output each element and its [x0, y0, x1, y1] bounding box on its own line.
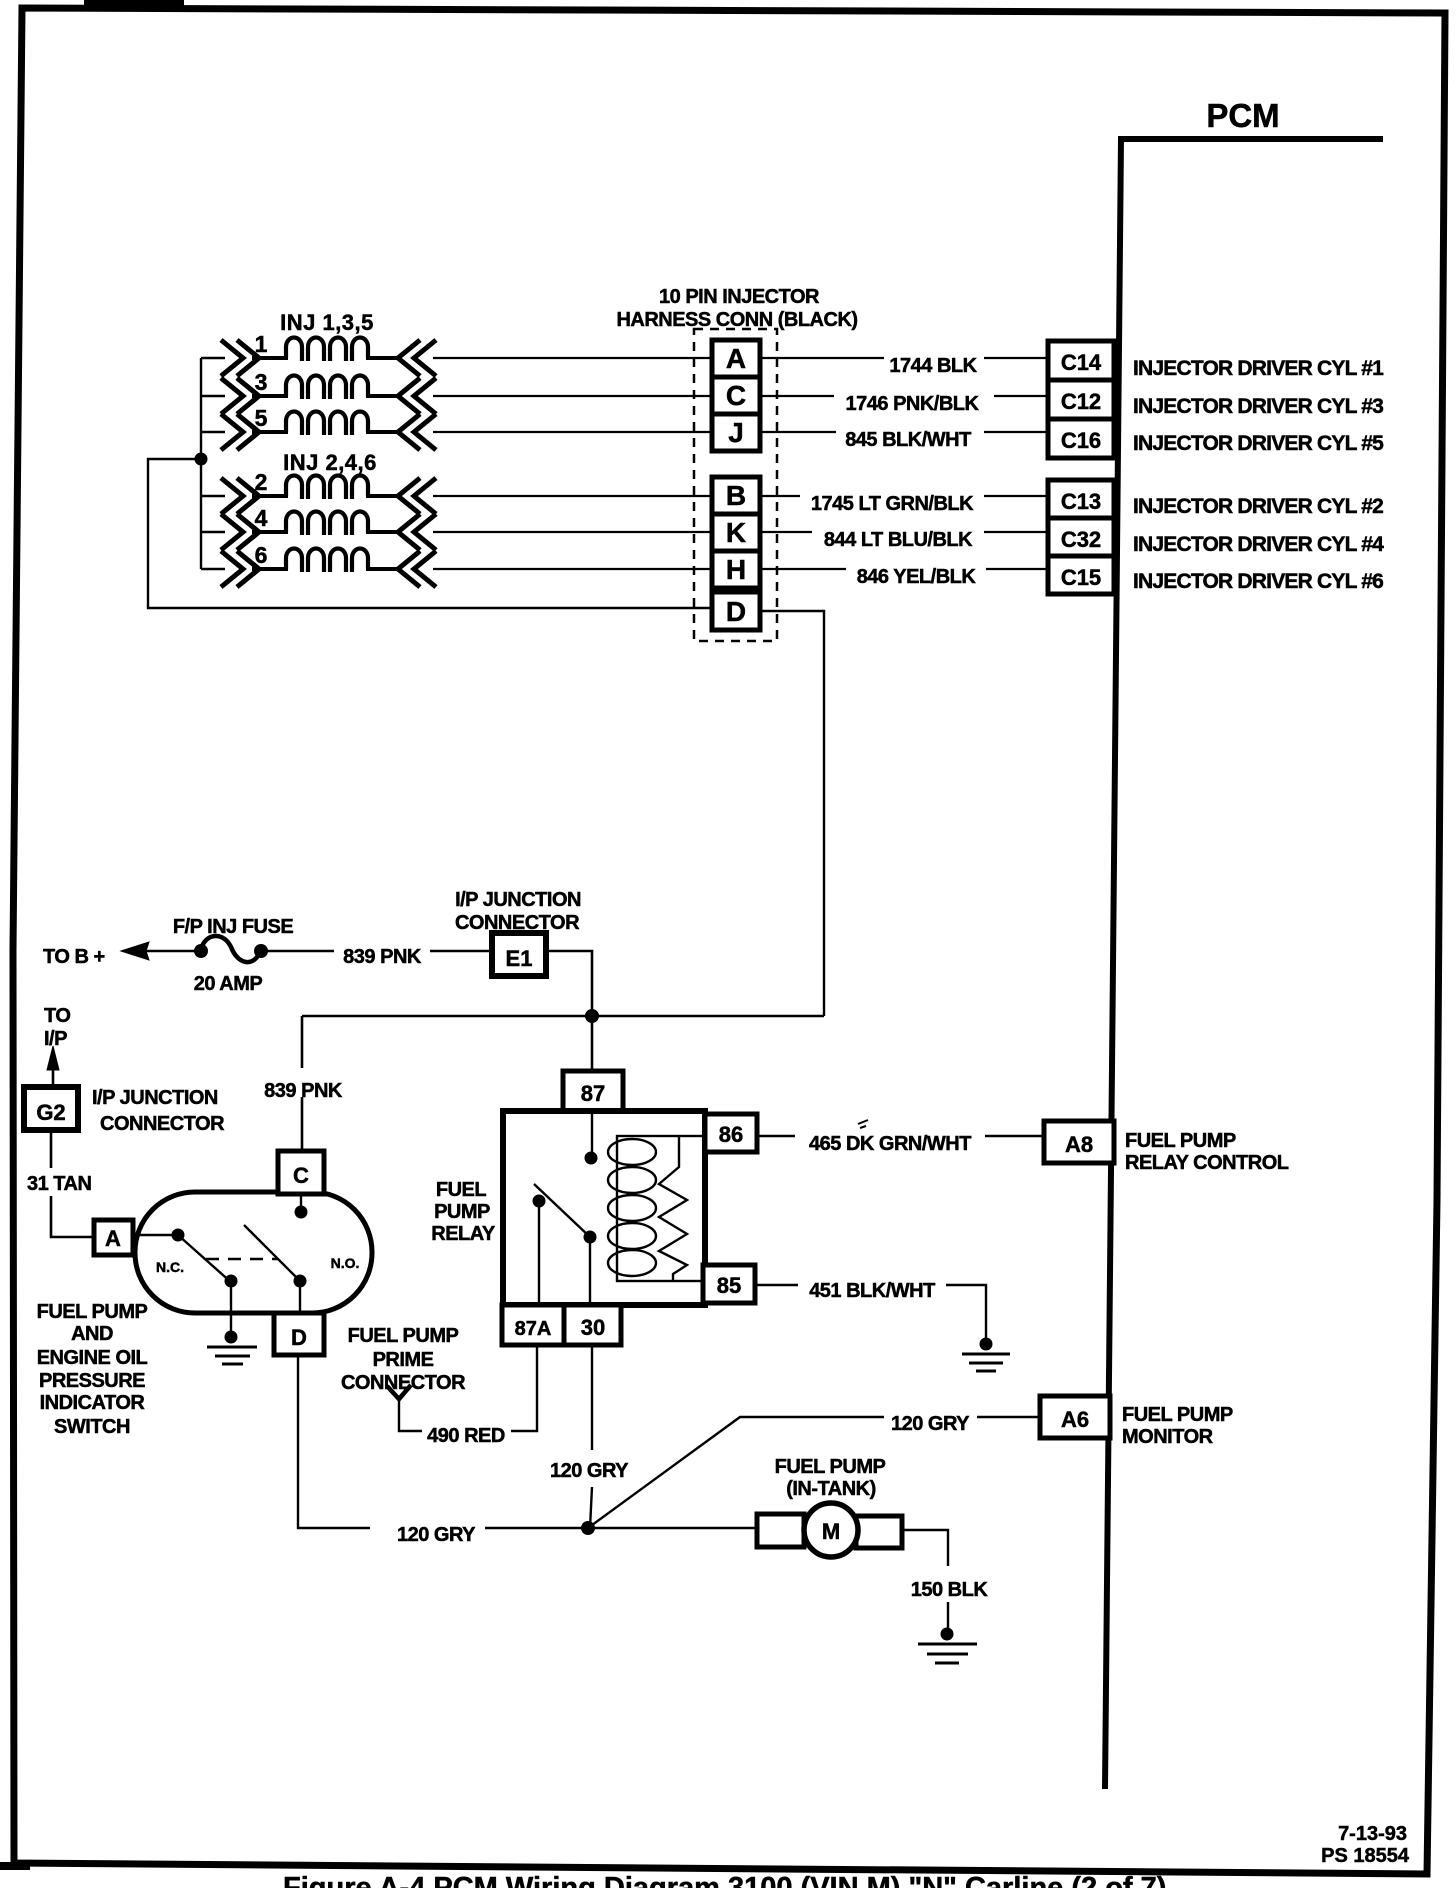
label INJECTOR DRIVER CYL #5 [1133, 432, 1384, 455]
svg-text:A: A [105, 1226, 121, 1251]
switch pin D [274, 1313, 324, 1355]
svg-text:7-13-93: 7-13-93 [1338, 1823, 1407, 1845]
svg-text:839 PNK: 839 PNK [264, 1080, 343, 1102]
svg-text:C13: C13 [1061, 489, 1101, 514]
svg-text:D: D [726, 596, 746, 627]
svg-text:120 GRY: 120 GRY [891, 1413, 970, 1435]
fuel pump relay box [503, 1111, 705, 1305]
injector 4 [201, 505, 714, 550]
svg-text:PUMP: PUMP [434, 1201, 490, 1223]
relay internal: 87A contact and wire [533, 1195, 546, 1306]
label I/P JUNCTION CONNECTOR (G2) [92, 1087, 225, 1135]
relay pin 86 [705, 1114, 757, 1152]
PCM pin A8 [1044, 1121, 1114, 1163]
label TO B + [43, 946, 105, 968]
svg-text:A8: A8 [1065, 1132, 1093, 1157]
svg-text:1746 PNK/BLK: 1746 PNK/BLK [846, 393, 980, 415]
ground (fuel pump) [918, 1628, 977, 1664]
svg-text:I/P JUNCTION: I/P JUNCTION [455, 889, 581, 911]
label 20 AMP [194, 973, 263, 995]
svg-text:87A: 87A [515, 1318, 552, 1340]
wire label 839 PNK (vertical branch) [264, 1080, 343, 1102]
injector 5 [201, 405, 714, 450]
wire junction down to 87 [591, 1016, 594, 1071]
wire label 465 DK GRN/WHT [795, 1130, 985, 1155]
relay pin 30 [564, 1305, 621, 1345]
PCM pin C12 [1048, 380, 1114, 419]
pin J [712, 414, 760, 451]
wire label 31 TAN [27, 1173, 91, 1195]
injector 3 [201, 369, 714, 414]
svg-text:F/P INJ FUSE: F/P INJ FUSE [173, 916, 293, 938]
PCM pin C14 [1048, 341, 1114, 380]
svg-text:N.C.: N.C. [156, 1259, 184, 1275]
svg-text:87: 87 [581, 1081, 605, 1106]
fuel pump / oil pressure switch oval [135, 1192, 372, 1313]
wire label 1745 LT GRN/BLK [800, 490, 984, 515]
wire pin J to C16 [760, 431, 1048, 433]
pin H [712, 551, 760, 588]
svg-text:Figure A-4 PCM Wiring Diagram: Figure A-4 PCM Wiring Diagram 3100 (VIN … [283, 1872, 1166, 1888]
label FUEL PUMP AND ENGINE OIL PRESSURE INDICATOR SWITCH [37, 1301, 148, 1438]
svg-text:1744 BLK: 1744 BLK [889, 355, 977, 377]
svg-text:PRIME: PRIME [373, 1349, 434, 1371]
wire E1 to junction [546, 951, 592, 1016]
svg-text:TO B +: TO B + [43, 946, 105, 968]
svg-text:RELAY CONTROL: RELAY CONTROL [1125, 1152, 1289, 1174]
svg-text:FUEL PUMP: FUEL PUMP [1125, 1130, 1236, 1152]
wire pin C to C12 [760, 395, 1048, 397]
svg-text:C16: C16 [1061, 428, 1101, 453]
wire label 150 BLK [911, 1579, 989, 1601]
svg-text:FUEL: FUEL [436, 1179, 487, 1201]
wire label 120 GRY (30 branch) [550, 1460, 629, 1482]
PCM pin C32 [1048, 518, 1114, 556]
wire label 845 BLK/WHT [836, 426, 984, 451]
svg-text:FUEL PUMP: FUEL PUMP [775, 1456, 886, 1478]
svg-text:20 AMP: 20 AMP [194, 973, 263, 995]
svg-text:C12: C12 [1061, 389, 1101, 414]
wire motor to ground [903, 1530, 948, 1633]
wire junction horizontal [302, 1015, 824, 1018]
fuel pump prime connector symbol [387, 1385, 422, 1431]
fuel pump motor M [757, 1503, 902, 1557]
svg-text:1745 LT GRN/BLK: 1745 LT GRN/BLK [811, 493, 974, 515]
label INJ 1,3,5 [280, 310, 374, 335]
svg-text:C: C [726, 380, 746, 411]
svg-text:C32: C32 [1061, 527, 1101, 552]
wire 85 to ground [755, 1285, 986, 1341]
arrow to B+ [121, 942, 201, 960]
svg-text:120 GRY: 120 GRY [397, 1524, 476, 1546]
PCM pin A6 [1040, 1396, 1110, 1438]
label FUEL PUMP PRIME CONNECTOR [341, 1325, 466, 1394]
relay coil [608, 1136, 705, 1281]
wire label 1746 PNK/BLK [834, 390, 994, 415]
label FUEL PUMP (IN-TANK) [775, 1456, 886, 1500]
svg-text:B: B [726, 480, 746, 511]
date code 7-13-93 / PS 18554 [1321, 1823, 1410, 1867]
wire label 120 GRY (A6) [891, 1413, 970, 1435]
artifact mark above DK [858, 1120, 868, 1128]
PCM pin C16 [1048, 419, 1114, 458]
svg-text:RELAY: RELAY [431, 1223, 496, 1245]
svg-text:2: 2 [255, 469, 268, 495]
svg-text:4: 4 [255, 505, 268, 531]
label I/P JUNCTION CONNECTOR (E1) [455, 889, 581, 934]
switch pin A [94, 1220, 133, 1255]
svg-text:SWITCH: SWITCH [54, 1416, 130, 1438]
relay internal: 87 contact [585, 1111, 598, 1165]
svg-text:M: M [822, 1519, 840, 1544]
svg-text:A: A [726, 343, 746, 374]
switch contacts and arms [133, 1194, 359, 1313]
wire 86 to A8 [757, 1135, 1044, 1137]
injector 1 (coil + connector chevrons) [201, 331, 714, 376]
wire label 490 RED [427, 1425, 505, 1447]
svg-text:INJECTOR DRIVER CYL #2: INJECTOR DRIVER CYL #2 [1133, 495, 1383, 518]
pin C [712, 377, 760, 414]
wire junction diagonal to A6 [588, 1417, 1040, 1528]
node: 839 PNK junction [585, 1009, 599, 1023]
svg-text:C: C [293, 1163, 309, 1188]
svg-text:845 BLK/WHT: 845 BLK/WHT [845, 429, 971, 451]
relay pin 87 [563, 1071, 623, 1111]
node: 120 GRY junction [581, 1521, 595, 1535]
relay pin 87A [502, 1305, 564, 1345]
svg-text:INJECTOR DRIVER CYL #5: INJECTOR DRIVER CYL #5 [1133, 432, 1384, 455]
arrow to I/P [47, 1046, 59, 1087]
svg-text:10 PIN INJECTOR: 10 PIN INJECTOR [659, 286, 820, 308]
svg-text:INJECTOR DRIVER CYL #1: INJECTOR DRIVER CYL #1 [1133, 357, 1384, 380]
fuse F/P INJ [194, 936, 268, 962]
label INJECTOR DRIVER CYL #4 [1133, 533, 1384, 556]
svg-text:K: K [726, 517, 746, 548]
wire bus to motor [485, 1527, 758, 1529]
pin A [712, 340, 760, 377]
label FUEL PUMP RELAY CONTROL [1125, 1130, 1289, 1174]
wire pin H to C15 [760, 568, 1048, 570]
svg-text:(IN-TANK): (IN-TANK) [786, 1478, 876, 1500]
wire G2 to A [51, 1130, 94, 1237]
svg-text:3: 3 [255, 369, 268, 395]
label FUEL PUMP MONITOR [1122, 1404, 1233, 1448]
svg-text:D: D [291, 1325, 307, 1350]
svg-text:FUEL PUMP: FUEL PUMP [1122, 1404, 1233, 1426]
wire pin A to C14 [760, 357, 1048, 359]
svg-text:PS 18554: PS 18554 [1321, 1845, 1410, 1867]
relay internal: 30 contact and armature [534, 1184, 597, 1305]
svg-text:TO: TO [44, 1005, 70, 1027]
svg-text:I/P JUNCTION: I/P JUNCTION [92, 1087, 218, 1109]
svg-text:85: 85 [717, 1273, 741, 1298]
label INJECTOR DRIVER CYL #1 [1133, 357, 1384, 380]
injector 6 [201, 542, 714, 587]
svg-text:490 RED: 490 RED [427, 1425, 505, 1447]
svg-text:FUEL PUMP: FUEL PUMP [37, 1301, 148, 1323]
svg-text:1: 1 [255, 331, 268, 357]
relay pin 85 [703, 1265, 755, 1303]
label TO I/P [44, 1005, 70, 1050]
pin B [712, 477, 760, 514]
svg-text:86: 86 [719, 1122, 743, 1147]
wire 490 RED to 87A [511, 1345, 537, 1431]
PCM label [1206, 97, 1279, 134]
svg-text:30: 30 [581, 1315, 605, 1340]
svg-text:J: J [728, 417, 744, 448]
wire: common bus to pin D [148, 459, 714, 608]
svg-text:31 TAN: 31 TAN [27, 1173, 91, 1195]
svg-text:HARNESS CONN (BLACK): HARNESS CONN (BLACK) [616, 309, 857, 331]
label INJ 2,4,6 [283, 450, 377, 475]
pin D [712, 592, 760, 630]
connector G2 [24, 1087, 78, 1130]
svg-text:846 YEL/BLK: 846 YEL/BLK [857, 566, 977, 588]
switch ground [207, 1287, 257, 1364]
wire label 839 PNK [334, 941, 430, 968]
wire label 451 BLK/WHT [798, 1275, 946, 1302]
svg-text:INJECTOR DRIVER CYL #3: INJECTOR DRIVER CYL #3 [1133, 395, 1383, 418]
svg-text:AND: AND [71, 1323, 113, 1345]
label FUEL PUMP RELAY [431, 1179, 496, 1245]
caption (cut off at page bottom) [283, 1872, 1166, 1888]
pin K [712, 514, 760, 551]
svg-text:C14: C14 [1061, 350, 1102, 375]
svg-text:C15: C15 [1061, 565, 1101, 590]
label INJECTOR DRIVER CYL #3 [1133, 395, 1383, 418]
svg-text:150 BLK: 150 BLK [911, 1579, 989, 1601]
svg-text:839 PNK: 839 PNK [343, 946, 422, 968]
svg-text:INJECTOR DRIVER CYL #4: INJECTOR DRIVER CYL #4 [1133, 533, 1384, 556]
svg-text:FUEL PUMP: FUEL PUMP [348, 1325, 459, 1347]
label INJECTOR DRIVER CYL #2 [1133, 495, 1383, 518]
svg-text:INJ 2,4,6: INJ 2,4,6 [283, 450, 377, 475]
svg-text:6: 6 [255, 542, 268, 568]
connector dashed outline [694, 329, 777, 641]
injector 2 [201, 469, 714, 514]
svg-text:451 BLK/WHT: 451 BLK/WHT [809, 1280, 935, 1302]
PCM pin C13 [1048, 480, 1114, 518]
svg-text:H: H [726, 554, 746, 585]
injector common bus (left vertical) [200, 358, 202, 569]
wire label 846 YEL/BLK [846, 563, 986, 588]
svg-text:ENGINE OIL: ENGINE OIL [37, 1347, 148, 1369]
wire 839 PNK down to switch C [301, 1016, 304, 1153]
svg-text:MONITOR: MONITOR [1122, 1426, 1214, 1448]
wire label 120 GRY (bus) [397, 1524, 476, 1546]
ground (relay 85) [962, 1338, 1010, 1372]
switch pin C [278, 1151, 324, 1194]
wire pin K to C32 [760, 531, 1048, 533]
wire D to 120 GRY bus [298, 1355, 370, 1528]
svg-text:I/P: I/P [44, 1028, 67, 1050]
svg-text:G2: G2 [36, 1100, 65, 1125]
svg-text:INJECTOR DRIVER CYL #6: INJECTOR DRIVER CYL #6 [1133, 570, 1383, 593]
wire 30 down to junction [590, 1345, 592, 1528]
wire pin B to C13 [760, 495, 1048, 497]
PCM pin C15 [1048, 556, 1114, 594]
label: 10 PIN INJECTOR HARNESS CONN (BLACK) [616, 286, 857, 331]
svg-text:844 LT BLU/BLK: 844 LT BLU/BLK [824, 529, 973, 551]
label F/P INJ FUSE [173, 916, 293, 938]
wire fuse to E1 [261, 950, 492, 953]
svg-text:465 DK GRN/WHT: 465 DK GRN/WHT [809, 1133, 971, 1155]
svg-text:A6: A6 [1061, 1407, 1089, 1432]
wire label 1744 BLK [884, 352, 984, 377]
svg-text:INDICATOR: INDICATOR [40, 1392, 146, 1414]
connector E1 [492, 933, 546, 976]
label INJECTOR DRIVER CYL #6 [1133, 570, 1383, 593]
node: injector common junction [195, 453, 208, 466]
svg-text:PCM: PCM [1206, 97, 1279, 134]
svg-text:PRESSURE: PRESSURE [39, 1370, 145, 1392]
svg-text:N.O.: N.O. [331, 1255, 360, 1271]
svg-text:5: 5 [255, 405, 268, 431]
svg-text:120 GRY: 120 GRY [550, 1460, 629, 1482]
PCM block outline [1105, 139, 1383, 1789]
svg-text:CONNECTOR: CONNECTOR [100, 1113, 225, 1135]
svg-text:E1: E1 [506, 946, 533, 971]
svg-text:INJ 1,3,5: INJ 1,3,5 [280, 310, 374, 335]
wire pin D to junction (down right side) [760, 611, 824, 1016]
wire label 844 LT BLU/BLK [812, 526, 984, 551]
